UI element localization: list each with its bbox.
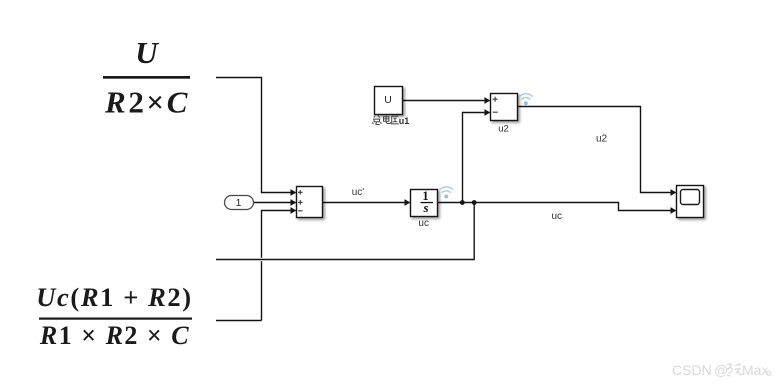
wire: bottom annotation stub [216, 320, 262, 322]
wire: node A up to sum u2 - input [463, 113, 490, 203]
inport block 1 [225, 196, 254, 210]
wire: constant U to sum u2 + input [403, 100, 490, 102]
watermark 弦 glyph [726, 363, 742, 376]
constant block U (总电压u1) [375, 87, 403, 115]
svg-text:@: @ [714, 362, 728, 378]
svg-text:uc: uc [418, 218, 429, 229]
svg-text:1: 1 [236, 198, 242, 209]
svg-text:Uc(R1 + R2): Uc(R1 + R2) [36, 282, 192, 312]
scope block [677, 186, 704, 218]
svg-text:CSDN: CSDN [672, 362, 712, 378]
svg-text:U: U [135, 35, 159, 70]
wire: sum output uc' to integrator [323, 202, 410, 204]
annotation: fraction Uc(R1+R2)/(R1×R2×C) bar [39, 318, 192, 320]
sum block (+,+,-) [297, 187, 323, 218]
svg-text:u2: u2 [498, 124, 509, 135]
svg-text:R2×C: R2×C [104, 85, 190, 120]
svg-text:s: s [422, 200, 428, 215]
annotation: fraction U / (R2*C) bar [103, 76, 190, 79]
sum block u2 (+,-) [491, 94, 518, 121]
svg-text:u1: u1 [399, 116, 410, 126]
u2 logging badge (wifi) [519, 94, 532, 99]
svg-text:u2: u2 [596, 134, 608, 145]
svg-text:U: U [384, 94, 392, 106]
svg-text:Max: Max [742, 362, 768, 378]
watermark fullwidth period [767, 371, 771, 375]
wire: uc feedback from node B down and left [216, 203, 474, 260]
svg-text:uc': uc' [352, 187, 365, 198]
integrator logging badge (wifi) [440, 187, 453, 192]
wire: integrator output to scope lower input [438, 203, 676, 211]
svg-text:R1 × R2 × C: R1 × R2 × C [39, 321, 190, 350]
watermark CSDN @弦Max [672, 362, 768, 378]
wire: top annotation to sum + input [216, 78, 296, 193]
svg-text:uc: uc [552, 211, 563, 222]
wire: vertical to sum - input [262, 211, 296, 321]
integrator block 1/s [411, 189, 438, 217]
wire: inport 1 to sum middle + input [254, 202, 296, 204]
node A junction dot [460, 200, 465, 205]
label 总电压u1 under constant block (CJK drawn as paths) [372, 116, 399, 125]
wire: sum u2 output to scope upper input [518, 107, 676, 193]
node B junction dot [472, 200, 477, 205]
